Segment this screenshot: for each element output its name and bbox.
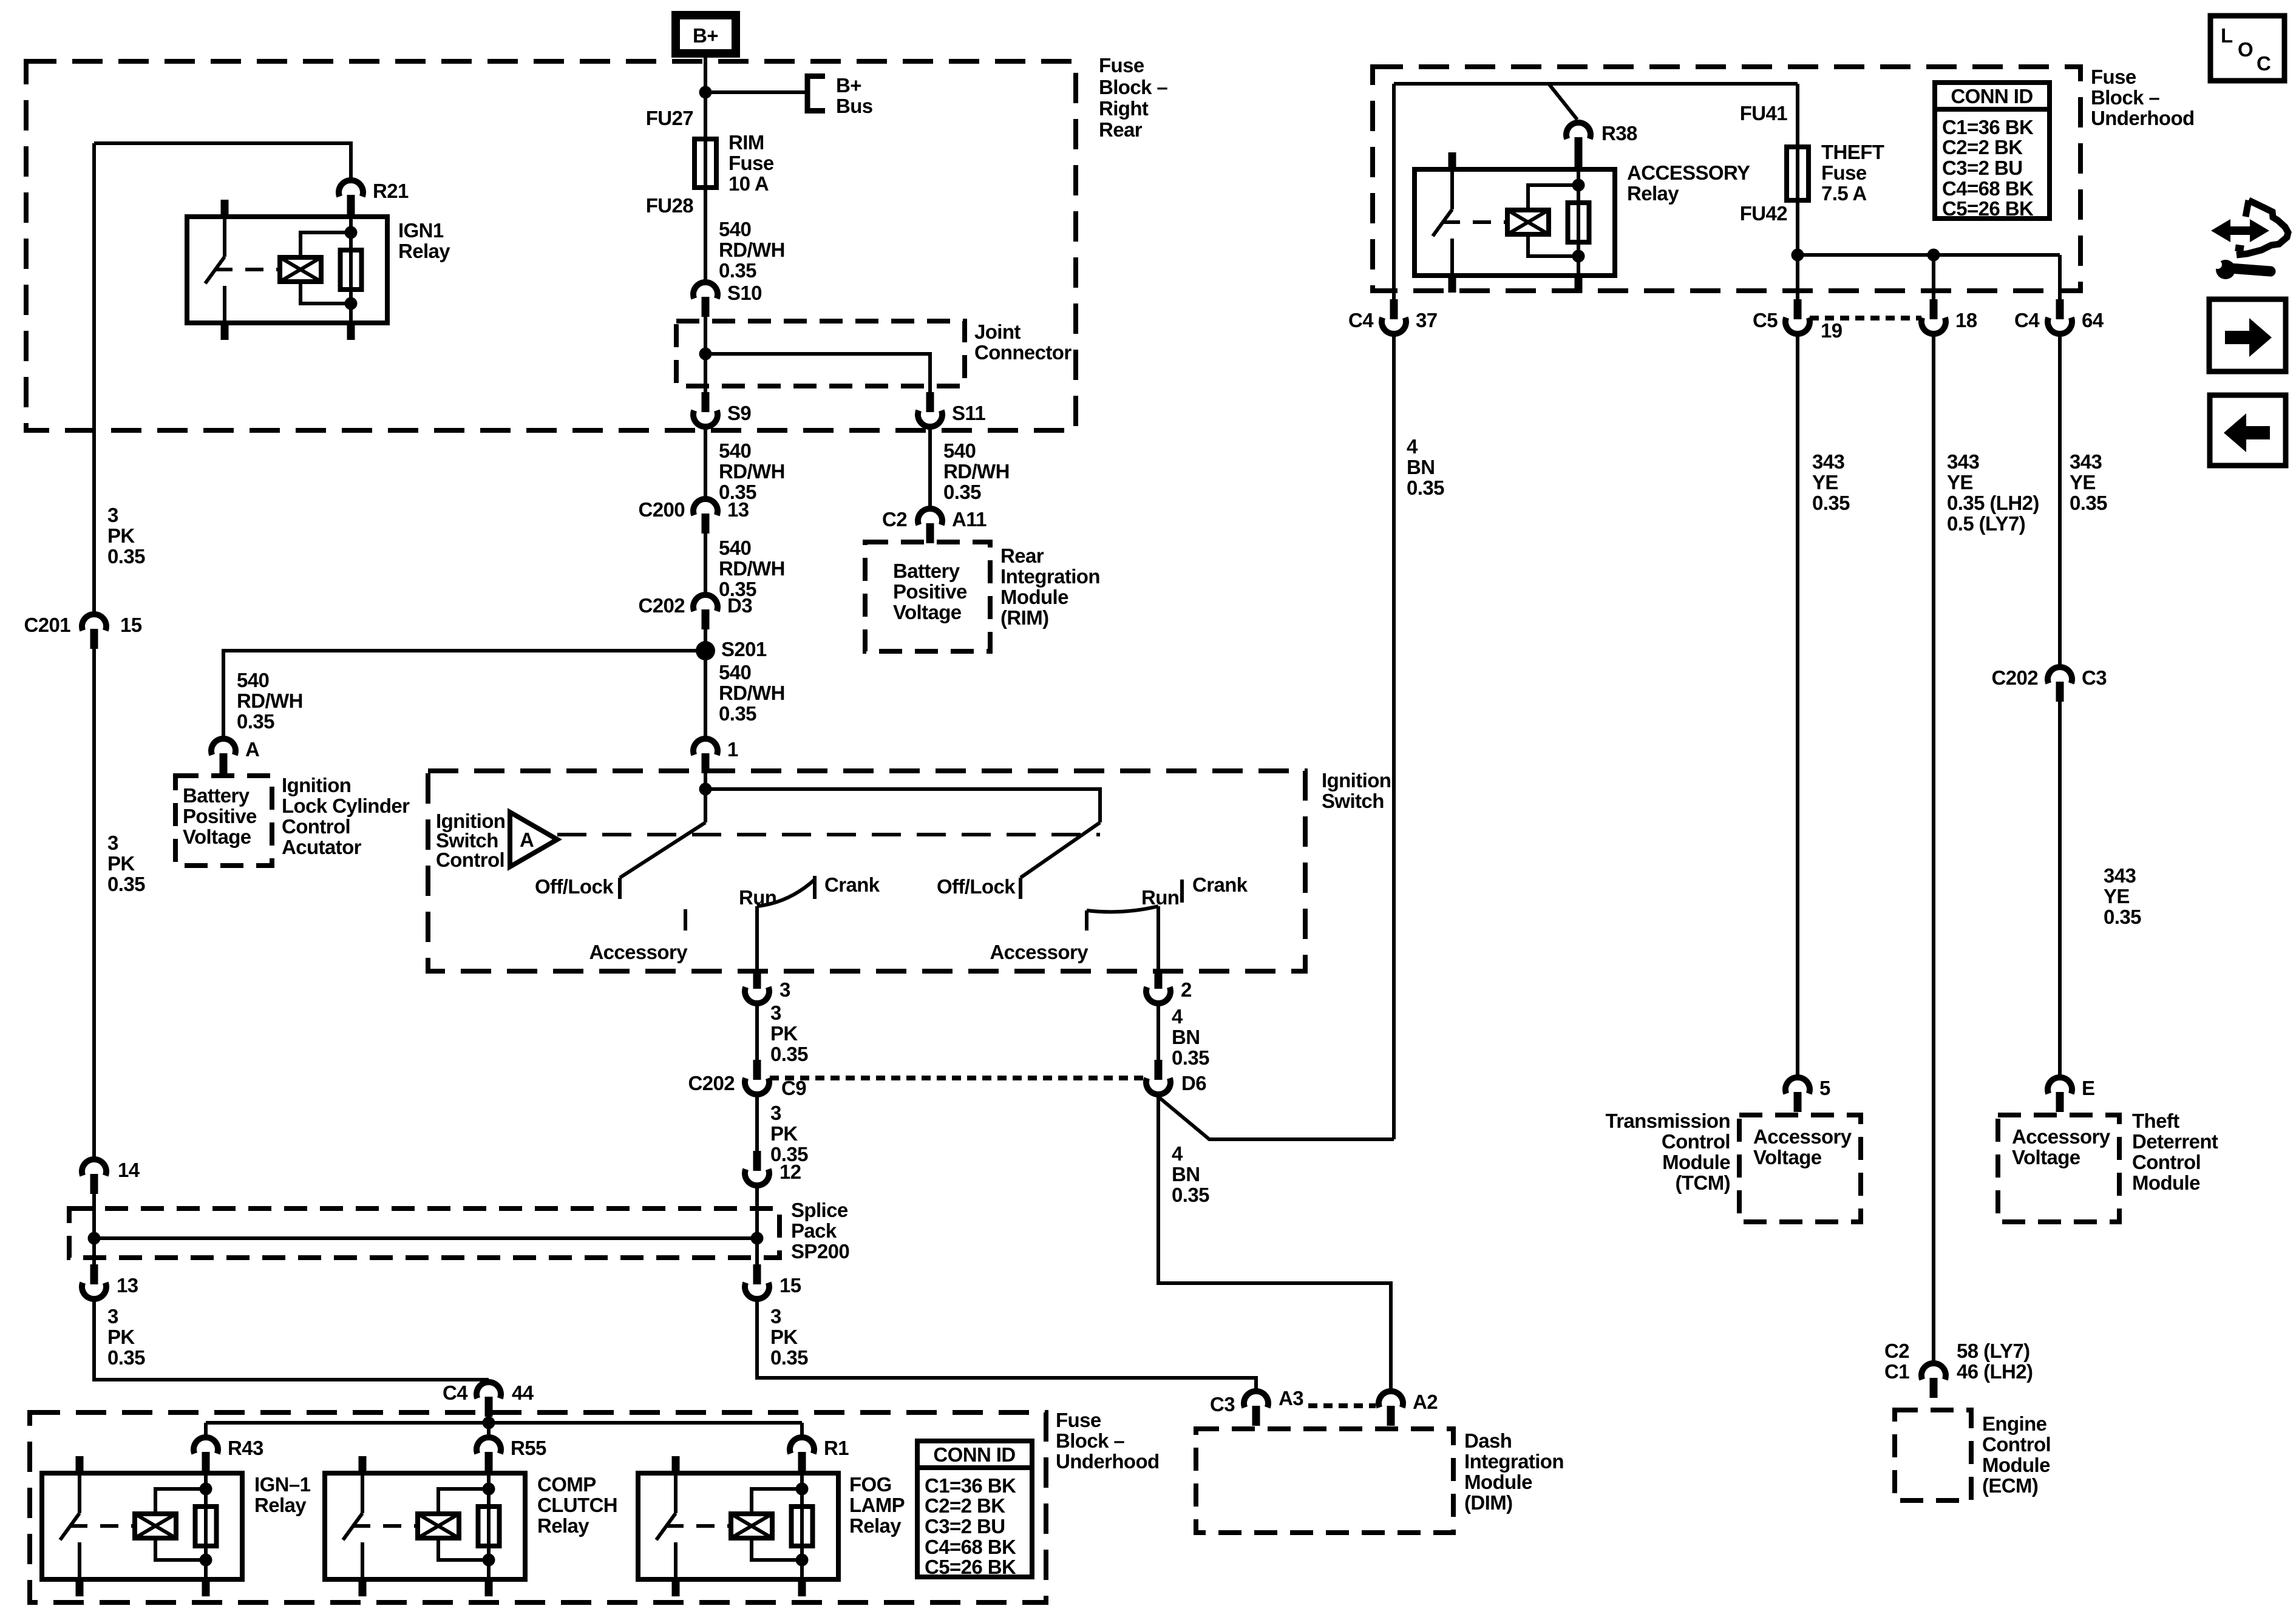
contact run 2 — [1087, 886, 1179, 912]
fuse RIM Fuse 10A — [695, 131, 774, 195]
ignition switch control triangle A — [510, 812, 557, 867]
svg-text:0.35: 0.35 — [1172, 1184, 1209, 1206]
splice connector S11 — [918, 392, 985, 427]
contact off/lock 2 — [937, 875, 1021, 899]
relay COMP CLUTCH — [325, 1456, 525, 1596]
svg-text:Ignition: Ignition — [282, 774, 351, 796]
svg-text:L: L — [2221, 24, 2233, 47]
svg-text:C202: C202 — [688, 1072, 735, 1094]
svg-text:Fuse: Fuse — [2091, 66, 2136, 88]
connector pin A — [211, 738, 259, 773]
svg-text:7.5 A: 7.5 A — [1821, 182, 1867, 205]
accessory voltage box theft — [1998, 1115, 2119, 1222]
wire drop to R43 — [204, 1423, 208, 1435]
wire fuse to S10 — [704, 188, 707, 280]
connector R21 — [339, 180, 409, 215]
connector ignition switch pin 2 — [1146, 969, 1192, 1003]
svg-text:Fuse: Fuse — [729, 152, 774, 174]
svg-text:Relay: Relay — [398, 240, 450, 262]
wire feed horizontal — [1394, 82, 1798, 86]
svg-text:0.35: 0.35 — [1407, 476, 1444, 499]
svg-text:YE: YE — [2104, 885, 2130, 907]
joint connector dashed box — [676, 320, 1072, 386]
svg-text:Module: Module — [1000, 586, 1068, 608]
svg-text:YE: YE — [1812, 471, 1838, 493]
svg-text:18: 18 — [1955, 309, 1977, 331]
svg-text:Switch: Switch — [1322, 790, 1384, 812]
svg-text:0.35: 0.35 — [2104, 906, 2141, 928]
connector C4 pin 64 — [2014, 299, 2104, 334]
label Fuse Block Underhood — [2091, 66, 2195, 129]
power symbol B+ — [676, 15, 736, 53]
wire S10 to junction — [704, 317, 707, 392]
svg-text:C2: C2 — [882, 508, 907, 531]
wire B+ to fuse FU27 — [704, 58, 707, 139]
svg-text:C5: C5 — [1753, 309, 1778, 331]
connector C202 pin C9 — [688, 1060, 807, 1099]
wire through theft fuse — [1796, 147, 1799, 200]
switch blade 1 — [620, 822, 705, 878]
wire junction to S11 drop — [705, 354, 930, 392]
conn id table bottom — [917, 1441, 1032, 1578]
svg-text:RD/WH: RD/WH — [719, 239, 785, 261]
svg-text:(RIM): (RIM) — [1000, 606, 1048, 629]
svg-text:14: 14 — [118, 1159, 140, 1181]
relay bus wire — [206, 1421, 802, 1425]
junction in joint connector — [699, 348, 712, 361]
svg-text:Deterrent: Deterrent — [2132, 1130, 2218, 1153]
svg-text:Accessory: Accessory — [2012, 1125, 2111, 1148]
wire C4/37 to D6 join — [1392, 336, 1396, 1139]
junction right — [751, 1232, 764, 1245]
svg-text:B+: B+ — [836, 74, 861, 97]
fuse THEFT 7.5A — [1787, 141, 1884, 205]
svg-text:Positive: Positive — [893, 580, 967, 603]
svg-text:Accessory: Accessory — [1753, 1125, 1852, 1148]
svg-text:D3: D3 — [727, 594, 752, 617]
svg-text:Control: Control — [1662, 1130, 1730, 1153]
svg-text:Fuse: Fuse — [1099, 54, 1144, 76]
wire label 540 RD/WH 0.35 — [719, 218, 785, 282]
connector C3 pin A3 — [1210, 1387, 1303, 1426]
svg-text:Control: Control — [282, 815, 350, 838]
svg-text:15: 15 — [120, 614, 142, 636]
svg-text:R55: R55 — [511, 1437, 546, 1459]
svg-text:Relay: Relay — [849, 1514, 902, 1537]
svg-text:Relay: Relay — [254, 1494, 307, 1516]
label ignition switch control — [436, 810, 505, 871]
pin labels C2 C1 58 46 — [1884, 1340, 2033, 1383]
wire 12 up from bus — [755, 1188, 759, 1238]
next page arrow icon — [2209, 299, 2286, 371]
label COMP CLUTCH Relay — [537, 1473, 617, 1537]
svg-text:Rear: Rear — [1000, 544, 1044, 567]
svg-text:13: 13 — [117, 1274, 138, 1297]
dotted line C9 to D6 — [770, 1076, 1146, 1080]
wire label 3 PK 0.35 — [770, 1305, 808, 1369]
svg-text:C4: C4 — [1348, 309, 1374, 331]
wire label 3 PK 0.35 — [770, 1102, 808, 1165]
connector C5 pin 19 — [1753, 299, 1843, 342]
svg-text:(ECM): (ECM) — [1982, 1474, 2038, 1497]
wire C4/64 to C202/C3 — [2058, 336, 2062, 665]
svg-text:PK: PK — [770, 1022, 798, 1045]
wire label 540 RD/WH 0.35 — [719, 537, 785, 600]
splice connector S9 — [693, 392, 751, 427]
contact accessory 1 — [589, 909, 688, 963]
wire label 343 YE 0.35 — [2104, 864, 2141, 928]
svg-text:Ignition: Ignition — [1322, 769, 1391, 792]
svg-text:C: C — [2257, 52, 2271, 75]
connector C200 pin 13 — [639, 498, 749, 534]
label Transmission Control Module TCM — [1605, 1110, 1730, 1194]
connector pin 14 — [82, 1159, 140, 1194]
svg-text:Battery: Battery — [183, 784, 250, 807]
svg-text:C201: C201 — [24, 614, 71, 636]
dotted line A3 to A2 — [1308, 1403, 1376, 1408]
connector C4 pin 44 — [443, 1381, 534, 1417]
svg-text:YE: YE — [1947, 471, 1973, 493]
wire label 3 PK 0.35 — [107, 1305, 145, 1369]
label Fuse Block Right Rear — [1099, 54, 1167, 141]
wire C202 to ignition switch pin 1 — [704, 629, 707, 736]
label Ignition Switch — [1322, 769, 1391, 812]
svg-text:Acutator: Acutator — [282, 836, 362, 858]
svg-text:Right: Right — [1099, 97, 1149, 120]
svg-text:YE: YE — [2070, 471, 2096, 493]
wire label 343 YE 0.35 — [1812, 450, 1850, 514]
svg-text:3: 3 — [770, 1002, 781, 1024]
wire pin 2 to D6 — [1156, 1006, 1160, 1060]
svg-text:Fuse: Fuse — [1821, 161, 1867, 184]
svg-text:3: 3 — [770, 1102, 781, 1124]
label IGN1 Relay — [398, 219, 450, 262]
wire label 4 BN 0.35 — [1172, 1005, 1209, 1069]
svg-text:0.35: 0.35 — [237, 710, 274, 733]
connector pin 13 — [82, 1264, 138, 1299]
connector C2 pin A11 — [882, 508, 987, 543]
svg-text:R1: R1 — [824, 1437, 849, 1459]
svg-text:Underhood: Underhood — [1056, 1450, 1160, 1473]
wire 18 to ECM — [1932, 336, 1935, 1361]
wire drop to 18 — [1932, 255, 1935, 299]
svg-text:Accessory: Accessory — [990, 941, 1089, 963]
svg-text:Crank: Crank — [824, 873, 880, 896]
svg-text:Theft: Theft — [2132, 1110, 2179, 1132]
svg-text:D6: D6 — [1181, 1072, 1206, 1094]
relay IGN-1 — [42, 1456, 242, 1596]
svg-text:540: 540 — [237, 669, 269, 691]
svg-text:C1: C1 — [1884, 1360, 1909, 1383]
fuse block underhood dashed box (top right) — [1373, 67, 2080, 291]
svg-text:540: 540 — [719, 218, 751, 240]
connector C202 pin D3 — [639, 594, 753, 629]
svg-text:0.35: 0.35 — [943, 481, 981, 503]
svg-text:Module: Module — [1982, 1454, 2050, 1476]
wire C200 to C202 — [704, 534, 707, 592]
relay FOG LAMP — [638, 1456, 838, 1596]
svg-text:540: 540 — [719, 661, 751, 683]
svg-text:FU28: FU28 — [646, 194, 694, 217]
wire D6 diagonal to accessory feed — [1158, 1097, 1394, 1139]
label IGN-1 Relay — [254, 1473, 311, 1516]
connector pin 18 — [1921, 299, 1977, 334]
wire top left horizontal to R21 — [94, 143, 351, 178]
svg-text:0.35: 0.35 — [107, 873, 145, 895]
contact accessory 2 — [990, 910, 1089, 963]
svg-text:R21: R21 — [373, 180, 409, 202]
svg-text:13: 13 — [727, 498, 749, 521]
svg-text:Relay: Relay — [1627, 182, 1679, 205]
svg-text:FU41: FU41 — [1740, 102, 1788, 124]
svg-text:Run: Run — [1141, 886, 1179, 909]
svg-text:A: A — [520, 829, 534, 851]
wire drop to R55 — [487, 1423, 491, 1435]
svg-text:0.35: 0.35 — [2070, 492, 2107, 514]
wire drop to C4/64 — [2058, 255, 2062, 299]
connector R43 — [194, 1437, 263, 1472]
svg-text:4: 4 — [1172, 1142, 1183, 1165]
svg-text:3: 3 — [107, 504, 118, 526]
svg-text:0.35: 0.35 — [1812, 492, 1850, 514]
linkage dashed line — [557, 833, 1100, 836]
svg-text:PK: PK — [107, 852, 135, 875]
wire drop to C5/19 — [1796, 255, 1799, 299]
svg-text:Rear: Rear — [1099, 118, 1143, 141]
svg-text:PK: PK — [770, 1326, 798, 1348]
svg-text:Voltage: Voltage — [893, 601, 962, 623]
label FOG LAMP Relay — [849, 1473, 905, 1537]
wire label 343 YE 0.35 — [2070, 450, 2107, 514]
svg-text:B+: B+ — [693, 24, 718, 47]
svg-text:2: 2 — [1181, 978, 1192, 1001]
accessory voltage box TCM — [1739, 1115, 1861, 1222]
svg-text:S10: S10 — [727, 282, 762, 304]
svg-text:Voltage: Voltage — [2012, 1146, 2080, 1168]
svg-text:Module: Module — [1662, 1151, 1730, 1173]
svg-text:Dash: Dash — [1464, 1429, 1512, 1452]
connector C4 pin 37 — [1348, 299, 1438, 334]
svg-text:Integration: Integration — [1000, 565, 1100, 588]
contact crank 1 — [815, 873, 880, 899]
svg-text:R43: R43 — [228, 1437, 263, 1459]
svg-text:3: 3 — [107, 1305, 118, 1327]
svg-text:ACCESSORY: ACCESSORY — [1627, 161, 1750, 184]
svg-text:46 (LH2): 46 (LH2) — [1957, 1360, 2033, 1383]
wire C9 to 12 — [755, 1094, 759, 1151]
wire run 2 to pin 2 — [1156, 906, 1160, 969]
wire label 540 RD/WH 0.35 — [719, 661, 785, 725]
svg-text:FU27: FU27 — [646, 107, 693, 129]
svg-text:R38: R38 — [1601, 122, 1637, 144]
dotted line C5 to 18 — [1810, 316, 1921, 320]
svg-text:Positive: Positive — [183, 805, 257, 827]
previous page arrow icon — [2210, 395, 2286, 466]
svg-text:BN: BN — [1172, 1163, 1200, 1185]
svg-text:3: 3 — [770, 1305, 781, 1327]
connector R1 — [790, 1437, 849, 1472]
svg-text:Splice: Splice — [791, 1199, 848, 1221]
wire C4/44 to relay bus — [487, 1417, 491, 1435]
vehicle repair icon outline — [2235, 200, 2288, 255]
switch blade 2 — [1021, 822, 1100, 878]
splice pack SP200 dashed box — [69, 1199, 849, 1263]
svg-text:0.35: 0.35 — [770, 1143, 808, 1165]
svg-text:THEFT: THEFT — [1821, 141, 1884, 163]
svg-text:E: E — [2082, 1077, 2094, 1099]
svg-text:19: 19 — [1821, 319, 1843, 342]
label ignition lock cylinder control acutator — [282, 774, 410, 858]
LOC icon box — [2210, 16, 2284, 81]
svg-text:Off/Lock: Off/Lock — [937, 875, 1016, 898]
connector ignition switch pin 1 — [693, 738, 738, 773]
svg-text:FU42: FU42 — [1740, 202, 1788, 225]
wire C5/19 to TCM 5 — [1796, 336, 1799, 1075]
svg-text:343: 343 — [2070, 450, 2102, 473]
svg-text:Lock Cylinder: Lock Cylinder — [282, 795, 410, 817]
junction ignition feed — [699, 783, 712, 796]
wire C3 to theft module E — [2058, 702, 2062, 1075]
svg-text:15: 15 — [779, 1274, 801, 1297]
svg-text:Module: Module — [2132, 1171, 2200, 1194]
label Fuse Block Underhood — [1056, 1409, 1160, 1473]
svg-text:44: 44 — [512, 1381, 534, 1404]
svg-text:540: 540 — [719, 537, 751, 559]
svg-text:C3: C3 — [1210, 1393, 1235, 1415]
wire S11 to C2/A11 — [928, 429, 932, 506]
svg-text:0.35: 0.35 — [1172, 1046, 1209, 1069]
connector ECM C1 — [1921, 1363, 1946, 1398]
wire label 4 BN 0.35 — [1407, 435, 1444, 499]
junction below B+ — [699, 86, 712, 99]
svg-text:Block –: Block – — [1099, 76, 1167, 98]
wire label 4 BN 0.35 — [1172, 1142, 1209, 1206]
svg-text:0.35: 0.35 — [107, 1346, 145, 1369]
svg-text:Connector: Connector — [974, 341, 1072, 364]
svg-text:S11: S11 — [952, 402, 985, 424]
svg-text:(DIM): (DIM) — [1464, 1491, 1512, 1514]
svg-text:0.35: 0.35 — [770, 1346, 808, 1369]
B+ Bus bracket — [807, 74, 873, 117]
wire to B+ Bus — [705, 90, 806, 94]
svg-text:4: 4 — [1172, 1005, 1183, 1028]
svg-text:343: 343 — [1812, 450, 1845, 473]
svg-text:C4: C4 — [2014, 309, 2040, 331]
svg-text:RD/WH: RD/WH — [719, 557, 785, 580]
svg-text:540: 540 — [719, 439, 751, 462]
svg-text:Engine: Engine — [1982, 1412, 2047, 1435]
label rear integration module RIM — [1000, 544, 1100, 629]
svg-text:0.35: 0.35 — [107, 545, 145, 568]
contact off/lock 1 — [535, 875, 620, 899]
svg-text:Pack: Pack — [791, 1219, 837, 1242]
svg-text:Bus: Bus — [836, 95, 873, 117]
label Dash Integration Module DIM — [1464, 1429, 1564, 1514]
wire 15 up from bus — [755, 1238, 759, 1264]
svg-text:0.35 (LH2): 0.35 (LH2) — [1947, 492, 2039, 514]
contact run 1 — [739, 880, 815, 909]
battery positive voltage box (RIM) — [865, 542, 990, 651]
svg-text:0.35: 0.35 — [719, 702, 756, 725]
svg-text:COMP: COMP — [537, 1473, 596, 1496]
battery positive voltage box (ignition lock) — [175, 776, 272, 866]
svg-text:IGN1: IGN1 — [398, 219, 444, 242]
connector C202 pin D6 — [1146, 1060, 1206, 1094]
svg-text:0.5 (LY7): 0.5 (LY7) — [1947, 512, 2025, 535]
svg-text:3: 3 — [107, 832, 118, 854]
connector theft module pin E — [2048, 1077, 2094, 1112]
svg-text:Joint: Joint — [974, 320, 1021, 343]
wire junction to second switch — [705, 789, 1100, 822]
svg-text:C2: C2 — [1884, 1340, 1909, 1362]
svg-text:RD/WH: RD/WH — [719, 460, 785, 483]
wire label 540 RD/WH 0.35 — [719, 439, 785, 503]
connector ignition switch pin 3 — [745, 969, 790, 1003]
svg-text:A2: A2 — [1413, 1391, 1438, 1413]
wire 13 down and right to C4/44 — [94, 1301, 489, 1380]
svg-text:A11: A11 — [952, 508, 987, 531]
wire C201 to 14 — [92, 649, 96, 1157]
svg-text:58 (LY7): 58 (LY7) — [1957, 1340, 2030, 1362]
svg-text:Control: Control — [436, 849, 504, 871]
svg-text:BN: BN — [1407, 456, 1435, 478]
svg-text:Control: Control — [2132, 1151, 2201, 1173]
svg-text:Relay: Relay — [537, 1514, 589, 1537]
wire D6 down to DIM A2 — [1158, 1097, 1391, 1389]
svg-text:S9: S9 — [727, 402, 751, 424]
svg-text:Transmission: Transmission — [1605, 1110, 1730, 1132]
svg-text:Block –: Block – — [1056, 1429, 1124, 1452]
svg-text:C202: C202 — [639, 594, 685, 617]
wire fuse to bus — [1796, 200, 1799, 255]
svg-text:540: 540 — [943, 439, 976, 462]
wire 3 to C9 — [755, 1006, 759, 1060]
svg-text:Module: Module — [1464, 1471, 1532, 1493]
svg-text:LAMP: LAMP — [849, 1494, 905, 1516]
junction left — [88, 1232, 101, 1245]
svg-text:5: 5 — [1819, 1077, 1830, 1099]
svg-text:Underhood: Underhood — [2091, 107, 2195, 129]
wire label 343 YE 0.35 LH2 LY7 — [1947, 450, 2039, 535]
svg-text:FOG: FOG — [849, 1473, 892, 1496]
wire left vertical to C201 — [92, 143, 96, 612]
svg-text:RD/WH: RD/WH — [237, 690, 303, 712]
svg-text:C200: C200 — [639, 498, 685, 521]
svg-text:0.35: 0.35 — [770, 1043, 808, 1065]
svg-text:RD/WH: RD/WH — [943, 460, 1010, 483]
splice connector S10 — [693, 282, 762, 317]
fuse block right rear dashed box — [26, 61, 1076, 430]
accessory voltage bus — [1798, 253, 2060, 257]
svg-text:37: 37 — [1416, 309, 1438, 331]
svg-text:4: 4 — [1407, 435, 1418, 458]
ignition switch dashed box — [428, 771, 1305, 971]
svg-text:PK: PK — [770, 1122, 798, 1145]
wire 15 down and right to C3 — [757, 1301, 1256, 1389]
relay ACCESSORY — [1415, 152, 1615, 293]
connector C201 pin 15 — [24, 614, 142, 649]
wire S9 to C200 — [704, 429, 707, 497]
svg-text:BN: BN — [1172, 1026, 1200, 1048]
svg-text:Fuse: Fuse — [1056, 1409, 1101, 1431]
svg-text:O: O — [2238, 38, 2253, 61]
svg-text:PK: PK — [107, 1326, 135, 1348]
conn id table top right — [1935, 83, 2050, 220]
svg-text:S201: S201 — [721, 638, 767, 660]
svg-text:1: 1 — [727, 738, 738, 761]
wire label 3 PK 0.35 — [107, 832, 145, 895]
svg-text:A: A — [245, 738, 259, 761]
